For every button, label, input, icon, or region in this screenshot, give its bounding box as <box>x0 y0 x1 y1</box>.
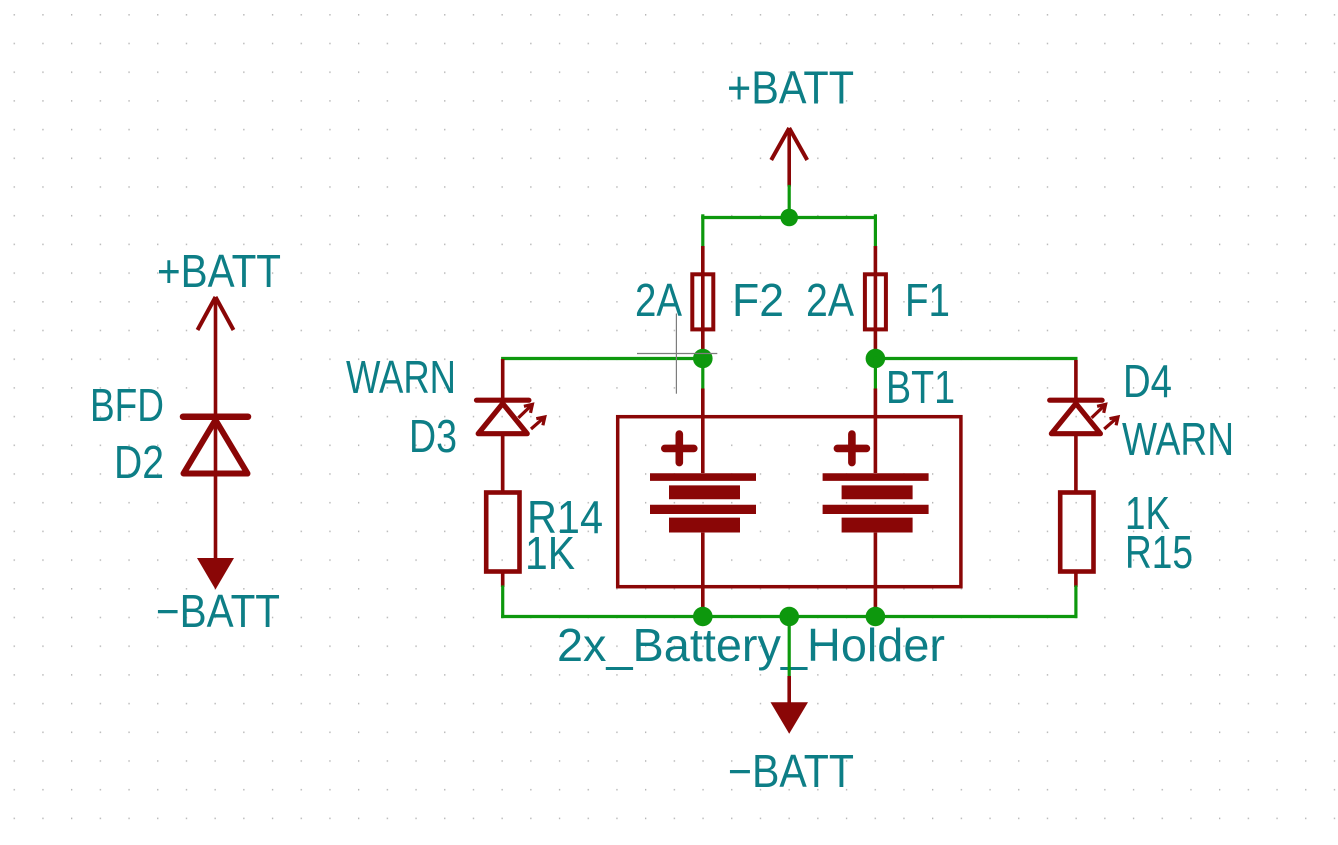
wire top horizontal <box>703 216 876 219</box>
wire resistor R14 to bottom rail <box>501 587 504 617</box>
svg-text:BFD: BFD <box>90 379 164 431</box>
LED D3 <box>477 359 545 490</box>
junction below F1 <box>866 349 886 369</box>
junction bottom battery 2 <box>866 607 886 627</box>
svg-text:−BATT: −BATT <box>156 585 280 637</box>
junction bottom center <box>779 607 799 627</box>
svg-text:−BATT: −BATT <box>728 745 854 797</box>
wire top-right corner down <box>874 216 877 246</box>
wire top-left corner down <box>701 216 704 246</box>
fuse F1 <box>865 246 886 354</box>
wire resistor R15 to bottom rail <box>1074 587 1077 617</box>
svg-text:D2: D2 <box>114 436 164 488</box>
junction below F2 <box>693 349 713 369</box>
svg-text:WARN: WARN <box>1122 413 1234 465</box>
svg-text:D4: D4 <box>1123 355 1172 407</box>
resistor R14 <box>486 434 519 587</box>
svg-text:2x_Battery_Holder: 2x_Battery_Holder <box>557 619 945 671</box>
LED D4 <box>1050 360 1118 492</box>
svg-text:BT1: BT1 <box>886 361 955 413</box>
svg-text:D3: D3 <box>409 410 457 462</box>
wire junction to -BATT <box>788 617 791 677</box>
svg-text:2A: 2A <box>635 274 682 326</box>
resistor R15 <box>1060 493 1093 588</box>
power symbol -BATT (left) <box>197 558 234 590</box>
wire stub battery pin 1 <box>701 359 704 389</box>
battery cell 1 <box>650 389 756 617</box>
diode D2 <box>183 417 248 558</box>
power symbol -BATT (bottom) <box>771 676 809 734</box>
junction top <box>780 209 798 227</box>
svg-text:F2: F2 <box>732 274 784 326</box>
battery holder BT1 outline <box>618 417 961 587</box>
svg-text:F1: F1 <box>905 274 950 326</box>
svg-text:WARN: WARN <box>346 351 456 403</box>
svg-text:+BATT: +BATT <box>157 245 281 297</box>
svg-text:R15: R15 <box>1125 526 1193 578</box>
cursor crosshair <box>637 314 717 394</box>
wire stub battery pin 2 <box>874 359 877 389</box>
junction bottom battery 1 <box>693 607 713 627</box>
fuse F2 <box>692 246 713 354</box>
wire middle horizontal right <box>875 357 1076 360</box>
wire middle horizontal left <box>503 357 703 360</box>
power symbol +BATT (top center) <box>771 128 807 187</box>
svg-text:2A: 2A <box>806 274 854 326</box>
svg-text:+BATT: +BATT <box>727 62 854 114</box>
svg-text:1K: 1K <box>525 527 575 579</box>
wire stem +BATT to junction <box>788 187 791 218</box>
battery cell 2 <box>823 389 929 617</box>
wire bottom rail <box>503 615 1076 618</box>
power symbol +BATT (left) <box>198 297 234 416</box>
